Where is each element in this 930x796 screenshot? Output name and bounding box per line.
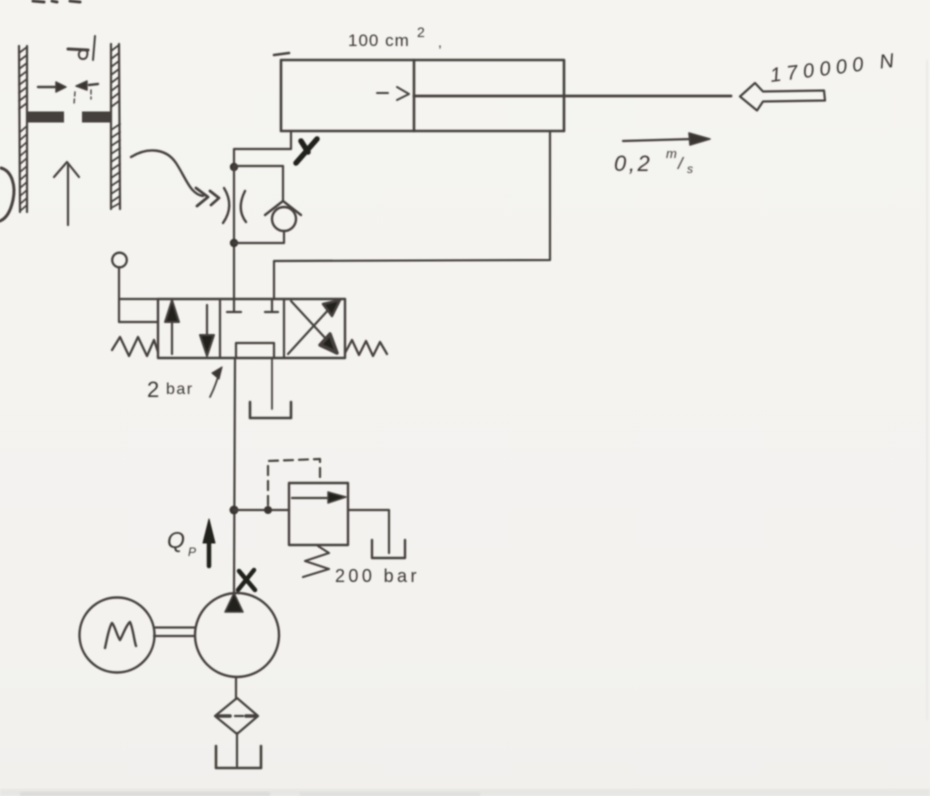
relief valve internal arrow [292, 497, 330, 499]
paper bottom edge shadow [0, 789, 930, 796]
svg-text:Q: Q [167, 527, 185, 553]
handwriting fragment left edge [0, 168, 14, 221]
handwriting fragment top edge [33, 1, 80, 2]
mark inside cylinder [377, 92, 388, 94]
relief valve RV body [289, 483, 348, 545]
leader arrow squiggle to throttle [131, 150, 203, 196]
valve center port tick B [265, 299, 278, 312]
wire cylinder right port to valve B [274, 131, 550, 299]
relief valve pilot line (dashed) [268, 459, 320, 505]
node P junction [230, 506, 239, 515]
filter element dashes [218, 714, 230, 718]
cylinder C1 body [281, 60, 564, 131]
velocity arrow [623, 139, 692, 141]
pump P1 circle [195, 593, 279, 677]
valve center port tick A [227, 299, 241, 312]
directional valve body [158, 299, 345, 358]
svg-text:2: 2 [147, 377, 159, 402]
svg-text:P: P [188, 545, 196, 559]
valve left position down arrow [206, 305, 208, 337]
pilot stem [118, 267, 120, 299]
motor shaft [154, 628, 195, 637]
wire P line valve to pump [234, 358, 235, 593]
svg-text:2: 2 [417, 24, 425, 40]
valve right position cross arrows [288, 308, 330, 354]
valve left position up arrow [171, 319, 173, 354]
tank T1 below valve [250, 402, 291, 418]
extension tick right [90, 90, 92, 99]
dimension arrow right (gap) [89, 84, 98, 85]
tank T2 (relief) [372, 540, 405, 558]
valve divider right [283, 299, 285, 358]
wire A line through throttle down to valve [233, 167, 235, 299]
spring right [345, 340, 387, 356]
electric motor M1 circle [80, 598, 155, 673]
label QP [167, 527, 196, 559]
label 2 bar arrow [210, 373, 219, 397]
orifice plate right [82, 112, 111, 123]
wire cylinder left port to throttle [234, 131, 291, 167]
svg-text:,: , [438, 34, 442, 50]
extension tick left [74, 92, 75, 104]
node pilot tap junction [264, 506, 272, 514]
valve center pocket [236, 343, 274, 357]
dimension d leader line [68, 49, 88, 50]
node junction top (throttle) [230, 163, 238, 171]
pipe wall right (orifice detail) [111, 44, 120, 209]
wire filter to tank [236, 733, 238, 766]
dimension arrow left (gap) [38, 86, 57, 88]
mark Y (bold) [296, 139, 317, 163]
cylinder piston [413, 60, 416, 131]
wire branch to relief valve [234, 509, 289, 511]
mark X (bold) [238, 570, 255, 590]
flow arrow QP (bold) [207, 540, 212, 566]
throttle (flow control) arcs [223, 188, 229, 223]
relief valve spring [303, 546, 329, 577]
pilot knob circle [112, 253, 127, 268]
check valve ball [272, 207, 296, 231]
cylinder rod [414, 95, 731, 98]
pilot box [119, 299, 158, 322]
pump outlet triangle [225, 593, 243, 612]
svg-text:m: m [666, 146, 677, 161]
label 200 bar [335, 566, 420, 586]
tank T3 (suction) [216, 746, 261, 768]
spring left [112, 337, 158, 356]
flow arrow up (orifice detail) [54, 162, 79, 225]
orifice plate left [28, 112, 64, 123]
relief valve outlet wire [348, 510, 389, 553]
filter F1 diamond [215, 698, 258, 734]
label 0,2 m/s [614, 146, 693, 176]
pipe wall left (orifice detail) [19, 46, 27, 212]
svg-text:s: s [687, 162, 693, 176]
svg-text:bar: bar [166, 381, 194, 398]
valve divider left [219, 299, 221, 358]
force arrow 170000 N (hollow) [740, 83, 825, 111]
motor letter M [105, 622, 136, 648]
paper right edge line [926, 60, 928, 720]
wire pump to filter [235, 677, 237, 699]
svg-text:100 cm: 100 cm [348, 31, 410, 50]
svg-text:0,2: 0,2 [614, 151, 652, 176]
svg-text:200 bar: 200 bar [335, 566, 420, 586]
wire valve T to tank [271, 358, 273, 409]
check valve bypass loop [234, 166, 283, 200]
cylinder top-left overshoot tick [274, 53, 289, 55]
check valve seat [265, 201, 301, 215]
label 2 bar [147, 377, 194, 402]
dimension label d [79, 50, 88, 59]
label 170000 N [769, 49, 901, 87]
label 100 cm2 [348, 24, 442, 50]
node junction bottom (throttle) [230, 239, 238, 247]
